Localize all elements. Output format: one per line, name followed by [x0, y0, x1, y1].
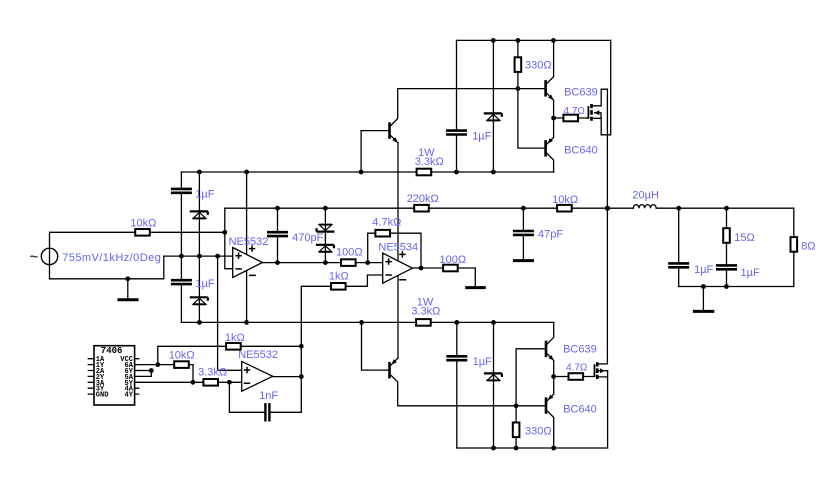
wire: BC640 bottom emitter — [546, 377, 553, 402]
wire: top +V rail R1 — [457, 39, 611, 41]
wire: BC639 top collector — [546, 40, 554, 84]
svg-text:4.7kΩ: 4.7kΩ — [372, 216, 401, 228]
node: op1 out at 470pF — [275, 260, 280, 265]
node: source ground — [125, 276, 130, 281]
op-amp U3 NE5532 — [242, 361, 273, 391]
zener top-right — [484, 113, 502, 120]
wire: M1 drain stub and trunk to M2 drain — [592, 89, 608, 364]
wire: M2 source stub to -V rail — [597, 371, 607, 448]
wire: output bottom line y=286.5 — [679, 286, 794, 288]
wire: bottom 1uF cap vertical x=456.8 — [456, 322, 458, 448]
svg-text:BC639: BC639 — [564, 86, 598, 98]
svg-text:100Ω: 100Ω — [440, 254, 467, 266]
node: output at 1uF — [676, 206, 681, 211]
svg-text:1µF: 1µF — [472, 131, 491, 143]
node: R2 at top zener — [491, 170, 496, 175]
resistor 100 op2 out — [443, 265, 458, 272]
svg-text:BC639: BC639 — [563, 343, 597, 355]
node: output bottom at zobel — [724, 284, 729, 289]
zener clamp lower — [316, 245, 334, 252]
wire: ground stub G4 — [702, 287, 704, 311]
node: R1 at 330ohm — [491, 38, 496, 43]
source V1 755mV — [30, 248, 58, 265]
svg-text:10kΩ: 10kΩ — [130, 218, 156, 230]
node: R1 at BC639 collector — [551, 38, 556, 43]
capacitor 1uF bottom-right — [446, 356, 468, 361]
wire: Q1 emitter diagonal — [390, 135, 398, 143]
resistor 4.7 top — [563, 115, 578, 122]
node: op3 output — [299, 374, 304, 379]
zener clamp upper (inverted) — [317, 225, 335, 232]
wire: op2 output to ground stub G2 — [412, 268, 475, 287]
wire: 7406 6A pin to 10k and down to 3.3k line — [139, 365, 193, 383]
svg-text:47pF: 47pF — [538, 229, 563, 241]
node: output at 15ohm — [724, 206, 729, 211]
svg-text:1µF: 1µF — [195, 188, 214, 200]
wire: 1k op3 feedback line y=346.3 — [158, 346, 301, 364]
svg-text:330Ω: 330Ω — [525, 425, 552, 437]
node: R4 at zener — [197, 320, 202, 325]
svg-text:~: ~ — [30, 249, 39, 266]
svg-text:4.7Ω: 4.7Ω — [566, 363, 588, 374]
wire: left cap vertical x=181.4 — [180, 172, 182, 322]
wire: op1 V+ power pin — [246, 172, 248, 255]
wire: left zener vertical x=199.4 — [198, 172, 200, 322]
mosfet M1 top — [588, 104, 599, 121]
wire: diode pair vertical x=325.4 — [324, 208, 326, 263]
node: R1 at zener — [516, 38, 521, 43]
capacitor 1nF op3 feedback — [264, 403, 270, 422]
node: op2 output — [419, 266, 424, 271]
node: 6Y-5A tie — [149, 368, 154, 373]
zener bottom-right — [484, 373, 502, 380]
wire: 7406 right pin stubs — [135, 359, 139, 394]
svg-text:8Ω: 8Ω — [801, 241, 815, 253]
resistor 10k input — [135, 229, 150, 236]
node: R4 at bottom cap — [454, 320, 459, 325]
node: R2 at zener — [197, 170, 202, 175]
node: 4.7ohm bottom junction — [551, 374, 556, 379]
ground G3 47pF — [513, 259, 534, 262]
wire: ground stub G1 — [127, 279, 129, 299]
node: R5 at zener — [491, 446, 496, 451]
resistor 8 load — [791, 237, 798, 252]
node: 3.3k line at 10k — [191, 380, 196, 385]
capacitor 1uF top-left — [170, 188, 192, 193]
wire: 4.7ohm bottom gate wire — [554, 376, 595, 378]
wire: BC639 bottom emitter — [546, 353, 553, 377]
wire: 330ohm top vertical — [517, 40, 519, 88]
wire: op1 V- power pin — [246, 271, 248, 323]
node: R2 at top cap — [454, 170, 459, 175]
op-amp U2 NE5534 — [383, 251, 413, 283]
ground G4 output — [693, 310, 714, 313]
svg-text:1µF: 1µF — [195, 278, 214, 290]
wire: M1 body stub — [595, 113, 602, 119]
zener D2 bottom-left — [190, 297, 208, 304]
wire: 7406 6Y-5A tie — [139, 371, 152, 377]
wire: Q1 collector to y=88.6 line — [390, 89, 398, 127]
wire: M1 source stub to +V rail — [592, 40, 611, 134]
capacitor 1uF bottom-left — [170, 280, 192, 285]
wire: op1 output line to op2 + input — [262, 262, 382, 264]
svg-text:330Ω: 330Ω — [525, 60, 552, 72]
wire: M2 drain stub — [597, 363, 607, 365]
wire: BC639 top emitter — [546, 92, 554, 118]
wire: BC639 bottom collector — [546, 322, 553, 344]
svg-text:NE5532: NE5532 — [238, 349, 278, 361]
wire: BC639 bottom base feed x=516.1 — [516, 349, 546, 448]
ground G2 op2 out — [465, 286, 486, 289]
resistor 330 bottom — [513, 423, 520, 438]
node: R4 at op1 V- — [244, 320, 249, 325]
wire: source top to 10k input line y=232.3 — [50, 232, 225, 278]
wire: 7406 left pin stubs — [88, 359, 94, 394]
wire: 4.7ohm top gate wire — [554, 117, 589, 119]
node: 1k op3 line at x=301.3 — [299, 344, 304, 349]
wire: top zener vertical x=493.4 — [492, 40, 494, 172]
wire: BC640 bottom collector — [546, 410, 553, 448]
wire: BC640 top emitter — [546, 118, 554, 145]
wire: Q1 base wire — [361, 131, 389, 172]
resistor 10k 7406 — [174, 361, 189, 368]
wire: feedback vertical x=224.8 to op1 - input — [225, 208, 233, 269]
wire: 15ohm + 1uF zobel branch x=726.5 — [726, 208, 728, 286]
wire: base line y=88.6 to BC639 — [398, 88, 546, 90]
node: R4 at Q2 base — [359, 320, 364, 325]
svg-text:BC640: BC640 — [563, 403, 597, 415]
svg-text:1kΩ: 1kΩ — [225, 332, 245, 344]
node: 4.7ohm top junction — [551, 116, 556, 121]
wire: output line with inductor to 8ohm branch — [607, 208, 793, 286]
svg-text:755mV/1kHz/0Deg: 755mV/1kHz/0Deg — [62, 252, 161, 264]
svg-text:GND: GND — [96, 392, 109, 400]
wire: bottom -V rail R5 — [457, 447, 608, 449]
wire: vref vertical x=217.6 to op3 + input — [218, 256, 242, 370]
svg-text:3.3kΩ: 3.3kΩ — [411, 306, 440, 318]
resistor 220k — [414, 205, 429, 212]
transistor BC639 top — [546, 80, 554, 100]
IC 7406 — [94, 346, 135, 405]
wire: M2 body stub — [597, 370, 607, 372]
node: R2 at op1 V+ — [244, 170, 249, 175]
wire: op2 V+ power line from Q1 emitter — [397, 143, 399, 261]
capacitor 47pF — [512, 230, 534, 235]
transistor BC640 top — [546, 138, 553, 157]
transistor BC640 bottom — [546, 395, 553, 414]
mosfet M2 bottom — [595, 362, 606, 379]
wire: output 1uF branch x=678.7 — [678, 208, 680, 286]
wire: 7406 5Y to 3.3k to op3 - input — [139, 381, 242, 383]
node: R3 at zener — [197, 254, 202, 259]
node: 10k input to feedback — [222, 230, 227, 235]
resistor 4.7k op2 feedback — [375, 230, 390, 237]
svg-text:20µH: 20µH — [632, 190, 659, 202]
resistor 100 op1 out — [341, 259, 356, 266]
wire: bottom zener vertical x=493.5 — [493, 322, 495, 448]
resistor 15 zobel — [723, 228, 730, 243]
svg-text:1kΩ: 1kΩ — [329, 270, 349, 282]
svg-text:4.7Ω: 4.7Ω — [564, 106, 586, 117]
wire: BC640 top base feed x=517.9 — [518, 89, 546, 149]
svg-text:10kΩ: 10kΩ — [552, 194, 578, 206]
transistor Q2 driver bottom — [390, 359, 397, 378]
wire: 4.7k feedback loop of op2 — [368, 233, 421, 268]
svg-text:1nF: 1nF — [259, 390, 278, 402]
svg-text:4Y: 4Y — [125, 392, 134, 400]
wire: op2 V- power line to Q2 emitter — [397, 275, 399, 358]
wire: 470pF vertical x=277.5 — [277, 208, 279, 262]
resistor 3.3k 1W top — [417, 169, 432, 176]
resistor 330 top — [515, 57, 522, 72]
node: output ground — [701, 284, 706, 289]
wire: Q2 collector to y=405.8 line — [390, 374, 546, 406]
capacitor 1uF top-right — [446, 130, 468, 135]
wire: 1nF feedback loop — [229, 382, 301, 412]
svg-text:7406: 7406 — [101, 346, 123, 356]
op-amp U1 NE5532 — [233, 245, 263, 277]
svg-text:15Ω: 15Ω — [734, 232, 754, 244]
wire: lower mid rail R4 y=322.4 — [181, 321, 553, 323]
svg-text:NE5532: NE5532 — [229, 236, 269, 248]
svg-text:3.3kΩ: 3.3kΩ — [415, 156, 444, 168]
node: BC640 bottom base / 330ohm — [514, 403, 519, 408]
node: R5 at 330ohm — [514, 446, 519, 451]
svg-text:10kΩ: 10kΩ — [169, 349, 195, 361]
wire: Q2 emitter diagonal — [390, 358, 398, 366]
resistor 1k op2 — [331, 283, 346, 290]
svg-text:3.3kΩ: 3.3kΩ — [198, 367, 227, 379]
svg-text:1µF: 1µF — [473, 356, 492, 368]
svg-text:1µF: 1µF — [741, 267, 760, 279]
resistor 3.3k op3 — [203, 379, 218, 386]
node: 10k line at 1k — [155, 362, 160, 367]
svg-text:NE5534: NE5534 — [378, 242, 418, 254]
node: op1 out at diode pair — [323, 260, 328, 265]
resistor 10k output — [557, 205, 572, 212]
wire: op2 - input to 1k line and vertical x=301.3 — [301, 275, 382, 412]
wire: upper mid rail R2 y=172 — [181, 171, 553, 173]
wire: 47pF vertical x=523.4 — [522, 208, 524, 259]
capacitor 1uF zobel — [716, 265, 738, 270]
node: 3.3k line at 1nF branch — [227, 380, 232, 385]
node: R3 at cap — [179, 254, 184, 259]
RESISTORS — [135, 57, 797, 437]
wire: source bottom loop — [50, 256, 164, 279]
capacitor 1uF output — [668, 263, 690, 268]
node: R4 at bottom zener — [491, 320, 496, 325]
node: center output node — [605, 206, 610, 211]
svg-text:1µF: 1µF — [694, 264, 713, 276]
svg-text:470pF: 470pF — [292, 232, 323, 244]
wire: BC640 top collector — [546, 152, 554, 172]
svg-text:BC640: BC640 — [564, 145, 598, 157]
resistor 1k op3 — [226, 343, 241, 350]
inductor 20uH — [633, 205, 656, 209]
svg-text:220kΩ: 220kΩ — [407, 193, 439, 205]
zener D1 top-left — [190, 211, 208, 218]
resistor 4.7 bottom — [569, 373, 584, 380]
transistor Q1 driver top — [390, 122, 398, 142]
wire: op3 output — [273, 376, 302, 378]
node: BC639 base / 330ohm — [516, 86, 521, 91]
node: op2 + input / 4.7k — [365, 260, 370, 265]
capacitor 470pF — [267, 232, 289, 237]
node: feedback line at 47pF — [521, 206, 526, 211]
GROUNDS — [118, 261, 715, 312]
node: R2 at Q1 base — [359, 170, 364, 175]
wire: Q2 base wire — [362, 322, 390, 370]
wire: main feedback/center line y=208.2 — [225, 207, 608, 209]
wire: top 1uF cap vertical x=456.5 — [456, 40, 458, 172]
wire: mid reference rail R3 to op1 + input — [164, 255, 233, 257]
node: R3 at vref branch — [215, 254, 220, 259]
node: feedback line at 470pF — [275, 206, 280, 211]
resistor 3.3k 1W bottom — [416, 319, 431, 326]
ground G1 source — [118, 298, 139, 301]
node: feedback line at diode pair — [323, 206, 328, 211]
transistor BC639 bottom — [546, 341, 554, 361]
svg-text:100Ω: 100Ω — [336, 246, 363, 258]
node: R5 at BC640 collector — [551, 446, 556, 451]
